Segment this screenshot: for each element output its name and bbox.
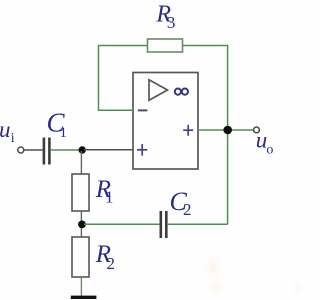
svg-text:1: 1 <box>60 125 68 141</box>
resistor R1 <box>72 174 89 211</box>
svg-text:2: 2 <box>183 200 192 219</box>
wire C1 to node A <box>51 149 80 151</box>
terminal ui <box>18 147 24 153</box>
resistor R3 <box>148 39 183 52</box>
capacitor C2 <box>161 211 167 238</box>
svg-text:3: 3 <box>167 13 176 32</box>
junction node B <box>78 221 86 229</box>
svg-text:o: o <box>266 142 273 157</box>
ground <box>71 296 97 299</box>
op-amp output pin + <box>183 125 193 136</box>
label R3 <box>155 2 175 32</box>
junction node A <box>79 146 86 153</box>
label u_i <box>0 117 15 146</box>
wire node A to op-amp noninverting input <box>84 149 133 151</box>
svg-text:u: u <box>0 117 11 142</box>
label R1 <box>95 176 114 206</box>
svg-text:i: i <box>11 131 15 146</box>
op-amp U1 <box>133 73 198 170</box>
wire C2 to output net <box>168 223 228 225</box>
op-amp inverting input pin - <box>138 109 148 111</box>
wire R3 to output net <box>183 46 228 225</box>
wire node A to R1 <box>80 151 82 174</box>
label C1 <box>47 108 68 142</box>
wire R2 to ground <box>80 277 82 296</box>
wire op-amp output to uo <box>198 129 253 131</box>
watermark smudge <box>208 259 301 292</box>
wire node B to C2 <box>84 223 159 225</box>
wire op-amp inverting input to R3 <box>99 46 148 111</box>
label R2 <box>95 241 115 273</box>
wire node B to R2 <box>80 228 82 237</box>
svg-text:1: 1 <box>105 187 114 206</box>
junction output node <box>223 126 232 135</box>
terminal uo <box>254 127 260 133</box>
resistor R2 <box>72 237 89 277</box>
label C2 <box>170 187 192 219</box>
op-amp noninverting input pin + <box>137 144 147 156</box>
capacitor C1 <box>44 138 50 165</box>
wire R1 to node B <box>80 211 82 221</box>
label u_o <box>256 128 274 158</box>
svg-text:2: 2 <box>107 254 116 273</box>
wire ui to C1 <box>24 149 42 151</box>
